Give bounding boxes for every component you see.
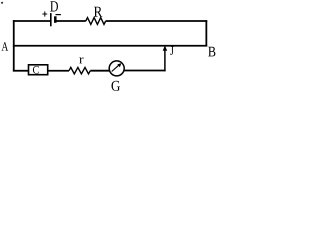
- wire bottom-left to box C: [13, 70, 28, 72]
- label + (battery positive): [42, 11, 47, 16]
- wire box C to r: [48, 70, 69, 72]
- label - (battery negative): [56, 14, 61, 16]
- wire galvanometer to riser: [121, 70, 166, 72]
- wire r to galvanometer: [90, 70, 112, 72]
- node J label: [170, 47, 173, 56]
- battery D long plate (+): [50, 13, 52, 26]
- galvanometer needle arrowhead: [117, 63, 121, 67]
- wire left vertical: [13, 20, 15, 71]
- wire R to top-right corner: [106, 20, 208, 22]
- label D: [50, 1, 58, 11]
- node A label: [2, 42, 9, 50]
- galvanometer G circle: [109, 61, 124, 76]
- resistor R zigzag: [86, 18, 106, 25]
- label C: [33, 66, 39, 74]
- stray dot top-left: [1, 2, 3, 4]
- jockey arrowhead at J: [163, 45, 168, 50]
- label R: [94, 7, 102, 17]
- wire top-left segment: [13, 20, 51, 22]
- wire right vertical: [205, 20, 207, 46]
- label G: [112, 81, 121, 91]
- wire battery to R: [57, 20, 86, 22]
- jockey riser wire: [164, 50, 166, 72]
- galvanometer needle: [112, 65, 120, 72]
- node B label: [208, 47, 215, 57]
- wire AB (potentiometer wire): [13, 45, 207, 47]
- resistor r zigzag: [69, 67, 90, 74]
- component box C: [29, 65, 48, 75]
- label r: [79, 57, 83, 63]
- battery D short plate (-): [54, 16, 57, 23]
